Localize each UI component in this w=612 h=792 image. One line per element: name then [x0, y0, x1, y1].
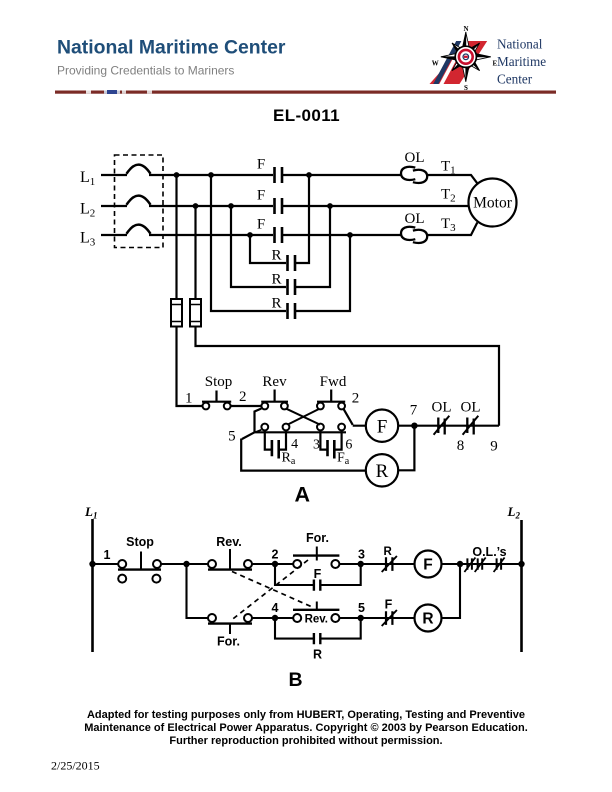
contact R NC — [386, 557, 392, 571]
junction L3-R1 — [247, 232, 253, 238]
coil F — [366, 410, 398, 442]
svg-text:W: W — [432, 60, 439, 68]
svg-text:Rev: Rev — [262, 374, 287, 390]
svg-text:Stop: Stop — [126, 535, 154, 549]
svg-text:Maintenance of Electrical Powe: Maintenance of Electrical Power Apparatu… — [84, 722, 528, 734]
svg-text:National Maritime Center: National Maritime Center — [57, 37, 286, 59]
svg-text:S: S — [464, 84, 468, 92]
svg-text:N: N — [463, 25, 468, 33]
junction dot rail L1 — [89, 561, 95, 567]
contact Ra bars — [272, 440, 279, 459]
svg-text:2: 2 — [239, 389, 247, 405]
contact R2 — [288, 279, 296, 295]
wire L1 to contact F1 — [149, 174, 273, 176]
overload contact OL 9 — [467, 418, 473, 435]
fwd pushbutton NC contacts — [317, 403, 324, 410]
svg-text:Rev.: Rev. — [305, 613, 328, 625]
coil F — [415, 551, 442, 578]
node 7 junction — [411, 423, 417, 429]
junction dot node A — [183, 561, 189, 567]
svg-text:OL: OL — [405, 211, 425, 227]
wire bottom bar of button box — [255, 431, 347, 433]
wire fuse 1 down to control rail — [177, 327, 203, 407]
junction L2-fuse2 — [193, 203, 199, 209]
fuse F2 — [190, 299, 201, 327]
stop pushbutton NC — [118, 560, 126, 568]
wire for to F coil — [339, 563, 414, 565]
junction L2-R2 — [228, 203, 234, 209]
junction L1-fuse1 — [174, 172, 180, 178]
wire rail to stop — [93, 563, 119, 565]
svg-text:OL: OL — [405, 150, 425, 166]
svg-text:Rev.: Rev. — [216, 535, 241, 549]
contact R3 — [288, 303, 296, 319]
rev pushbutton NC contacts — [261, 403, 268, 410]
svg-text:F: F — [257, 188, 265, 204]
svg-text:1: 1 — [104, 548, 111, 562]
rail L2 — [520, 520, 523, 652]
svg-text:4: 4 — [272, 601, 279, 615]
svg-text:R: R — [422, 611, 433, 628]
junction dot node 4 — [272, 615, 278, 621]
wire link to bottom-left contact — [256, 430, 262, 432]
motor M — [469, 179, 517, 227]
wire rev to R coil — [339, 617, 414, 619]
svg-text:F: F — [385, 598, 393, 612]
wire stop to rev — [161, 563, 208, 565]
overload heater OL on T1 — [401, 167, 415, 180]
svg-text:Maritime: Maritime — [497, 54, 546, 69]
wire L3/T3 from F3 to OL — [283, 234, 402, 236]
svg-text:R: R — [376, 461, 389, 482]
wire L2 down to fuse 2 — [194, 206, 196, 299]
holding contact F branch — [275, 564, 361, 585]
logo compass letters — [432, 25, 498, 92]
svg-text:National: National — [497, 37, 543, 52]
wire left frame of button box — [255, 409, 262, 433]
wire fuse 2 to right control rail — [196, 327, 500, 426]
svg-text:R: R — [383, 546, 392, 558]
svg-text:5: 5 — [228, 429, 236, 445]
holding contact R branch — [275, 618, 361, 639]
junction dot node 5 — [358, 615, 364, 621]
contact Ra leads — [265, 430, 286, 449]
overload heater OL on T3 — [401, 227, 415, 240]
overload contacts O.L.'s — [467, 558, 472, 569]
svg-text:F: F — [423, 557, 432, 574]
svg-text:Further reproduction prohibite: Further reproduction prohibited without … — [169, 735, 442, 747]
wire for to rev rung2 — [252, 617, 293, 619]
svg-text:R: R — [271, 248, 281, 264]
for pushbutton NO — [293, 560, 301, 568]
junction dot node 3 — [358, 561, 364, 567]
wire F coil to rail L2 — [442, 563, 522, 565]
wire L3 to contact F3 — [149, 234, 273, 236]
logo compass star — [441, 32, 491, 82]
contact F2 — [275, 198, 283, 214]
junction dot rail L2 — [518, 561, 524, 567]
wire T3 from OL to motor — [427, 223, 477, 236]
svg-text:3: 3 — [313, 438, 320, 453]
wire L1/T1 from F1 to OL — [283, 174, 402, 176]
wire L3 junction down to contact R1 — [250, 235, 286, 263]
svg-text:Adapted for testing purposes o: Adapted for testing purposes only from H… — [87, 709, 525, 721]
logo center emblem — [455, 46, 476, 67]
contact F3 — [275, 227, 283, 243]
stop pushbutton — [203, 403, 210, 410]
breaker pole 1 arc — [127, 165, 151, 174]
wire T1 from OL to motor — [427, 175, 477, 183]
svg-text:F: F — [314, 567, 322, 581]
wire R coil to node 7 — [398, 426, 414, 471]
svg-text:Motor: Motor — [473, 195, 513, 212]
svg-text:For.: For. — [306, 531, 329, 545]
contact F1 — [275, 167, 283, 183]
svg-text:OL: OL — [432, 400, 452, 416]
rev pushbutton NO rung2 — [293, 614, 301, 622]
svg-text:F: F — [257, 157, 265, 173]
svg-text:1: 1 — [185, 391, 193, 407]
wire R2 up to T2 — [296, 206, 330, 287]
rev pushbutton NC — [208, 560, 216, 568]
svg-text:Center: Center — [497, 72, 533, 87]
svg-text:Providing Credentials to Marin: Providing Credentials to Mariners — [57, 64, 234, 78]
circuit breaker CB1 dashed enclosure — [115, 155, 164, 248]
rev/fwd NO contacts bottom row — [261, 424, 268, 431]
svg-text:F: F — [377, 416, 388, 437]
svg-text:Stop: Stop — [205, 374, 233, 390]
breaker pole 2 arc — [127, 196, 151, 205]
junction T2-R2 — [327, 203, 333, 209]
wire rev to for — [252, 563, 293, 565]
junction dot after F coil — [457, 561, 463, 567]
svg-text:A: A — [295, 483, 311, 507]
contact Fa leads — [320, 430, 341, 449]
svg-text:5: 5 — [358, 601, 365, 615]
contact F NC rung2 — [386, 611, 392, 625]
coil R — [366, 454, 398, 486]
junction L1-R3 — [208, 172, 214, 178]
wire L2 junction down to contact R2 — [231, 206, 286, 287]
svg-text:8: 8 — [457, 438, 465, 454]
svg-text:7: 7 — [410, 403, 418, 419]
logo red parallelogram — [430, 41, 488, 84]
mechanical linkage for dashed — [232, 560, 309, 620]
coil R — [415, 605, 442, 632]
mechanical linkage rev dashed — [232, 572, 311, 607]
stop pushbutton NO terminals — [118, 575, 126, 583]
wire R1 up to T1 — [296, 175, 309, 263]
logo stripe white gap — [439, 41, 466, 84]
svg-text:4: 4 — [291, 437, 298, 452]
wire node A down to rung 2 — [187, 564, 209, 618]
wire L2/T2 from F2 to motor — [149, 205, 469, 207]
svg-text:6: 6 — [345, 438, 352, 453]
wire F coil to OL contacts — [398, 425, 499, 427]
breaker pole 3 arc — [127, 225, 151, 234]
svg-text:EL-0011: EL-0011 — [273, 106, 340, 125]
logo blue diagonal stripe — [433, 41, 461, 84]
wire L2 left — [101, 205, 127, 207]
wire stop to rev — [231, 405, 262, 407]
contact R1 — [288, 255, 296, 271]
wire node 5 down to R coil — [241, 432, 366, 470]
wire R coil up to common — [442, 564, 461, 618]
svg-text:2/25/2015: 2/25/2015 — [51, 759, 100, 773]
rail L1 — [91, 519, 94, 652]
wire L1 down to fuse 1 — [175, 175, 177, 299]
svg-text:R: R — [271, 272, 281, 288]
wire fwd to F coil — [343, 409, 365, 426]
svg-text:OL: OL — [461, 400, 481, 416]
cross wire fwd-to-rev — [288, 409, 319, 425]
header rule — [55, 91, 556, 94]
junction T1-R1 — [306, 172, 312, 178]
svg-text:R: R — [313, 648, 322, 662]
overload contact OL 8 — [438, 418, 444, 435]
wire L1 left — [101, 174, 127, 176]
svg-text:3: 3 — [358, 548, 365, 562]
svg-text:For.: For. — [217, 635, 240, 649]
fuse F1 — [171, 299, 182, 327]
svg-text:O.L.’s: O.L.’s — [472, 545, 506, 559]
wire L1 junction down to contact R3 — [211, 175, 286, 311]
contact Fa bars — [328, 440, 335, 459]
junction dot node 2 — [272, 561, 278, 567]
svg-text:9: 9 — [490, 439, 498, 455]
svg-text:R: R — [271, 296, 281, 312]
svg-text:F: F — [257, 217, 265, 233]
junction T3-R3 — [347, 232, 353, 238]
svg-text:2: 2 — [272, 548, 279, 562]
for pushbutton NC rung2 — [208, 614, 216, 622]
wire R3 up to T3 — [296, 235, 350, 311]
svg-text:B: B — [288, 669, 302, 691]
cross wire rev-to-fwd — [287, 409, 321, 425]
svg-text:2: 2 — [352, 391, 360, 407]
svg-text:Fwd: Fwd — [320, 374, 347, 390]
wire L3 left — [101, 234, 127, 236]
